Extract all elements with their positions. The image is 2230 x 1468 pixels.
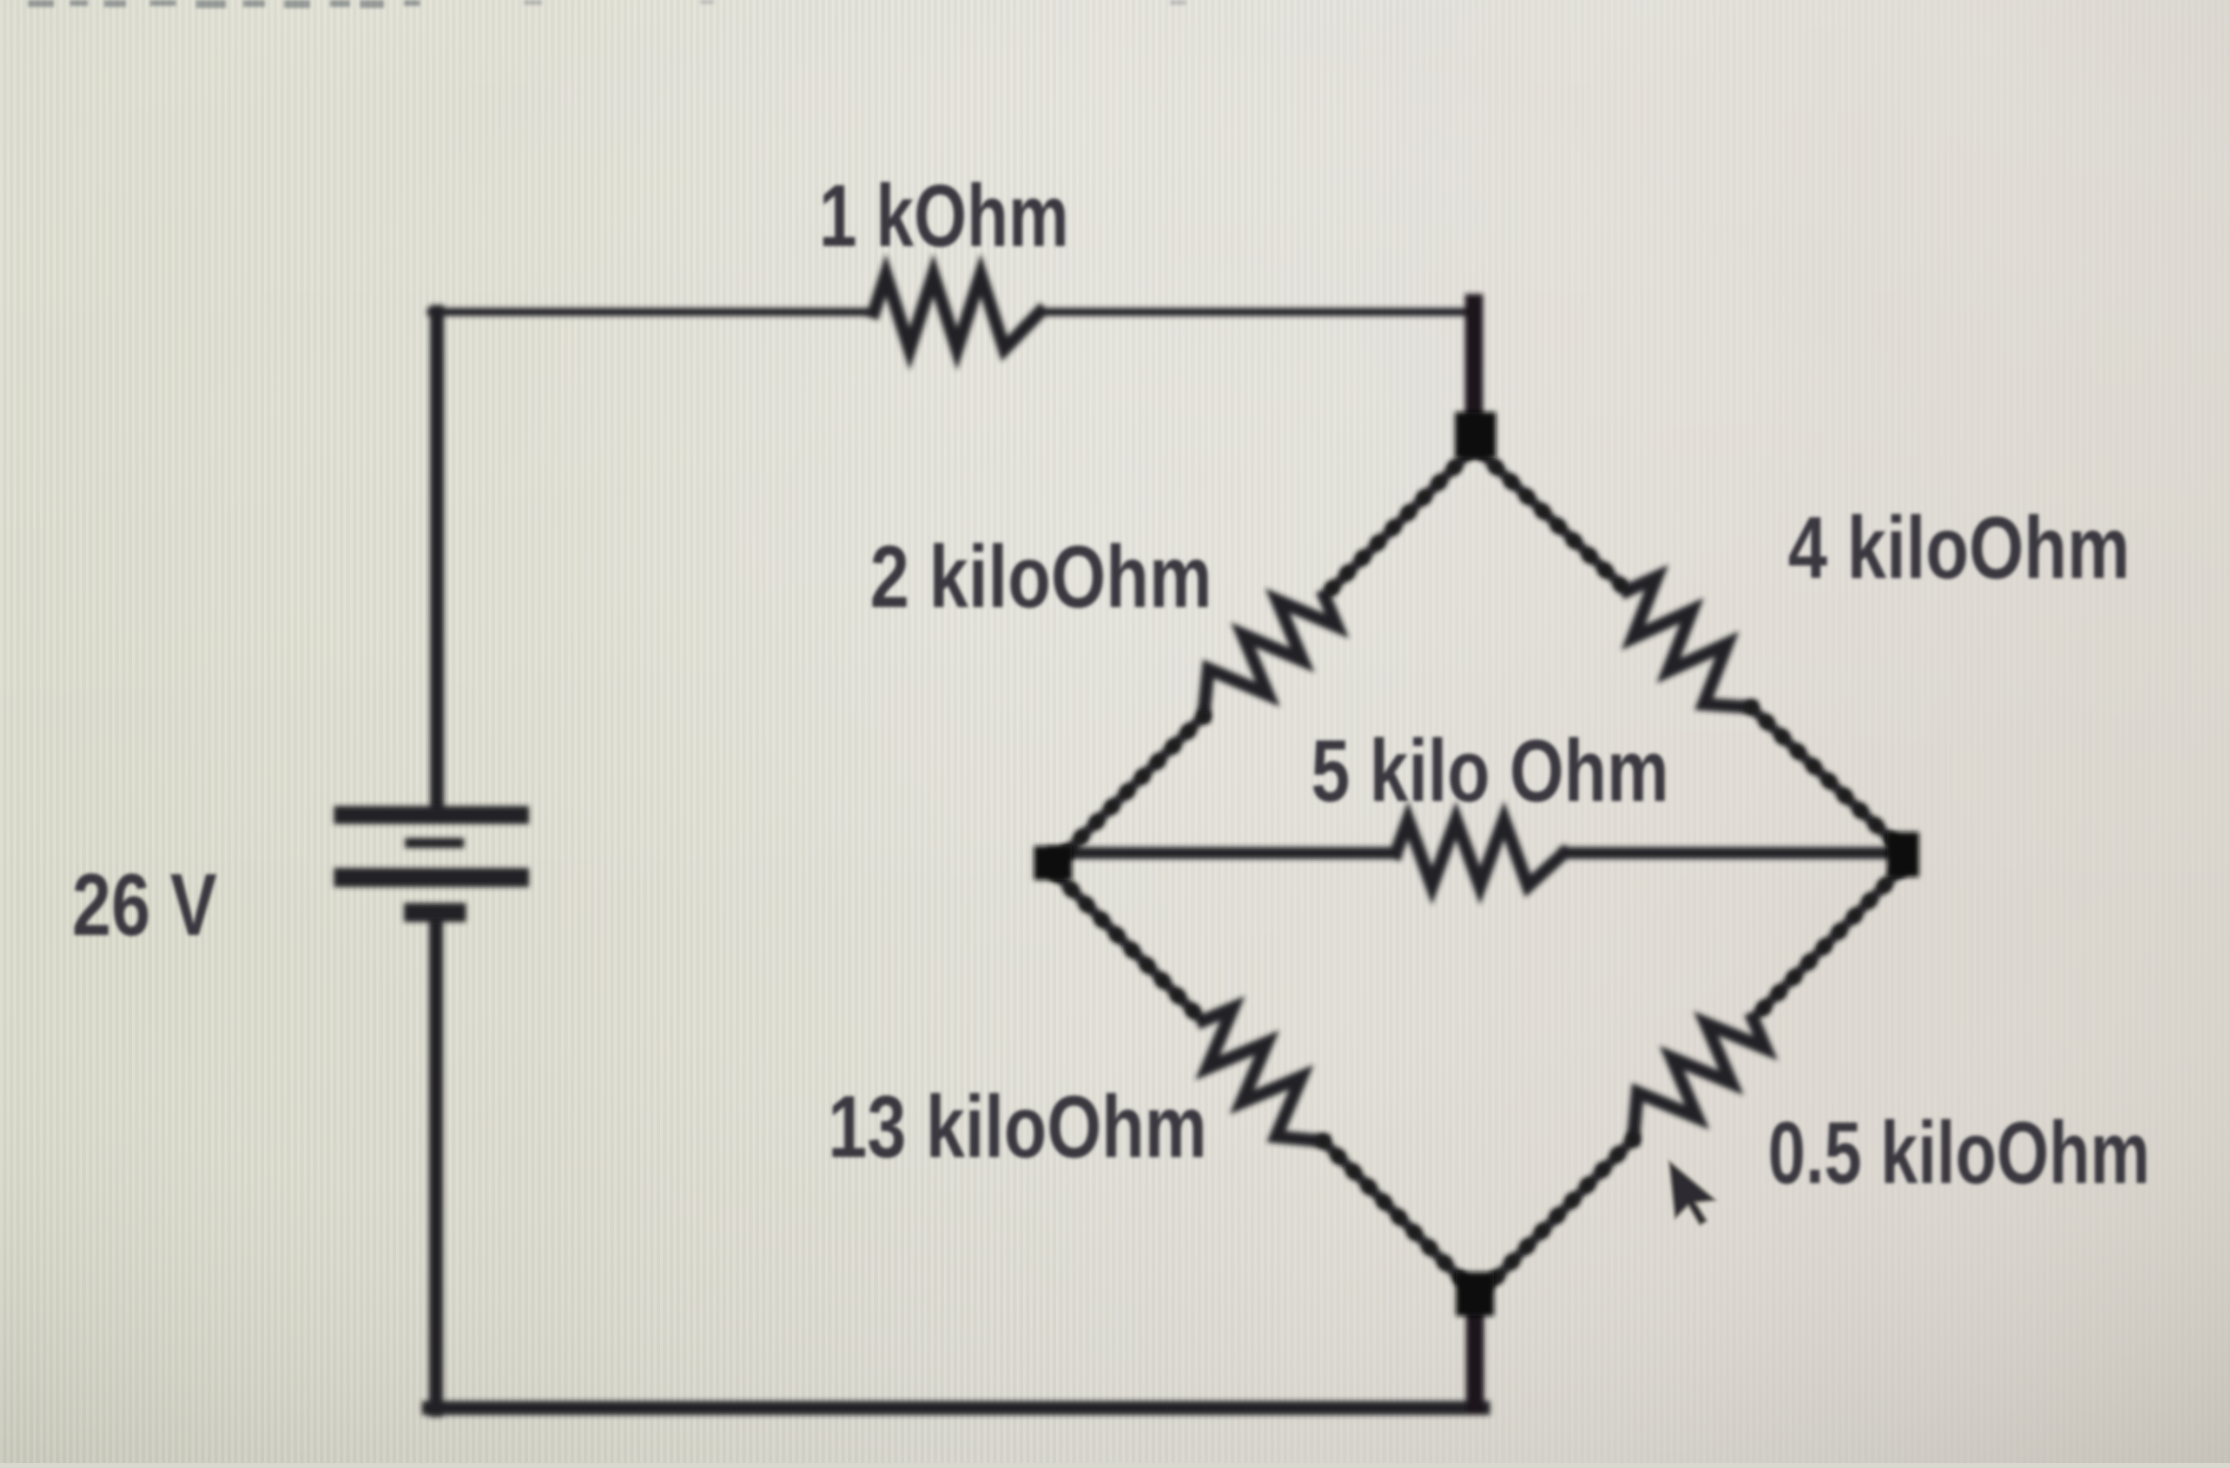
svg-text:13 kiloOhm: 13 kiloOhm: [828, 1077, 1207, 1176]
bridge nodes: [1034, 412, 1919, 1316]
node left: [1034, 846, 1072, 880]
node top: [1455, 412, 1496, 458]
resistor R5 5 kilo Ohm zigzag: [1396, 820, 1564, 886]
wire: bridge bottom node drop: [1466, 1298, 1484, 1404]
wire: bridge arm upper-right: [1480, 452, 1627, 591]
wire: battery bottom to bottom rail: [429, 918, 443, 1410]
node bottom: [1456, 1272, 1494, 1316]
wire: top rail left segment: [431, 308, 874, 316]
wire bead texture: upper-left arm top segment: [1324, 452, 1470, 596]
wire bead texture: lower-left arm top segment: [1056, 874, 1203, 1021]
wire bead texture: upper-right arm bottom segment: [1751, 707, 1898, 846]
svg-text:5 kilo Ohm: 5 kilo Ohm: [1311, 721, 1669, 820]
mouse cursor: [1669, 1157, 1718, 1228]
wire bead texture: lower-right arm bottom segment: [1486, 1139, 1633, 1288]
wire bead texture: lower-left arm bottom segment: [1323, 1141, 1470, 1288]
wire bead texture: lower-right arm top segment: [1753, 870, 1900, 1019]
battery plate long top: [334, 806, 529, 824]
wire: bottom rail: [429, 1401, 1483, 1415]
wire: top rail right segment: [1040, 308, 1478, 316]
node right: [1887, 832, 1919, 877]
resistor R4 4 kiloOhm zigzag: [1627, 577, 1751, 707]
wire: bridge arm lower-right: [1753, 870, 1900, 1019]
wire: bridge middle right segment: [1564, 847, 1903, 859]
battery plate short thick: [404, 903, 466, 922]
wire: bridge arm upper-left: [1324, 452, 1470, 596]
wire: bridge middle left segment: [1053, 847, 1396, 859]
battery plate long lower: [334, 868, 529, 887]
resistor R1 1 kOhm zigzag: [874, 275, 1040, 349]
resistor R05 0.5 kiloOhm zigzag: [1633, 1019, 1765, 1140]
wire: right drop to bridge top node: [1465, 303, 1483, 424]
svg-text:1 kOhm: 1 kOhm: [819, 166, 1069, 265]
wire: left rail (battery top to top-left corner): [430, 312, 444, 810]
svg-text:26 V: 26 V: [72, 855, 217, 954]
wire: bridge arm lower-left: [1056, 874, 1203, 1021]
svg-text:2 kiloOhm: 2 kiloOhm: [870, 527, 1212, 626]
resistor R2 2 kiloOhm zigzag: [1204, 596, 1337, 716]
wire bead texture: upper-left arm bottom segment: [1058, 716, 1204, 860]
svg-text:4 kiloOhm: 4 kiloOhm: [1788, 498, 2130, 597]
svg-text:0.5 kiloOhm: 0.5 kiloOhm: [1768, 1103, 2150, 1202]
resistor R13 13 kiloOhm zigzag: [1203, 1008, 1323, 1141]
cropped text marks at very top edge: [28, 0, 1186, 8]
battery B1 26 V: [334, 806, 529, 922]
wire bead texture: upper-right arm top segment: [1480, 452, 1627, 591]
battery plate short thin: [405, 838, 464, 848]
